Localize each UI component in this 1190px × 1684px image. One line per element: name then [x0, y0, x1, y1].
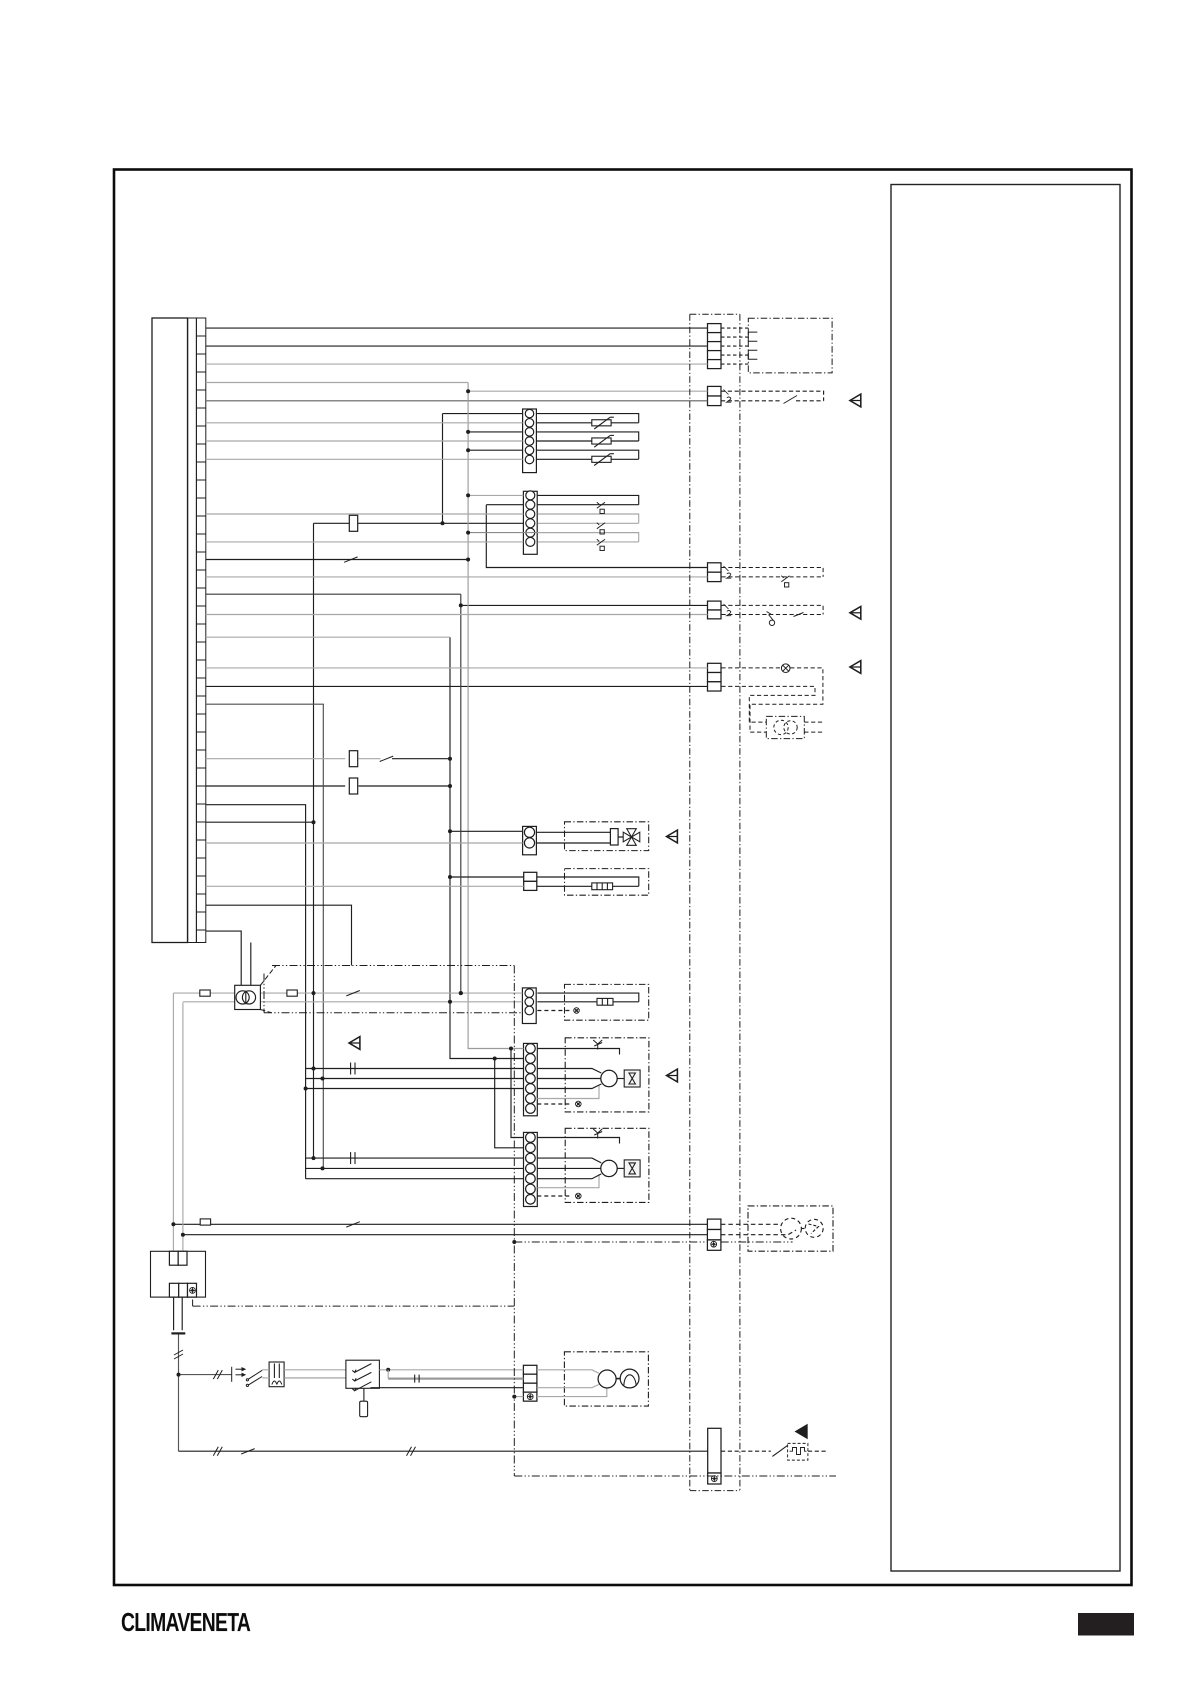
warning triangle [667, 1069, 678, 1082]
pump link [616, 1378, 620, 1380]
wire QS to FU [262, 1370, 269, 1378]
wire bend 351 [206, 905, 352, 965]
relay coil K [349, 778, 357, 794]
resistor R2 [597, 998, 613, 1005]
compressor enclosure [748, 1206, 833, 1251]
pressure switch SP3 [597, 539, 605, 550]
terminal strip X4 [708, 601, 722, 619]
contact KM1 [346, 1222, 360, 1227]
field boundary bottom [690, 1490, 740, 1492]
fan unit 2 paddle wire [537, 1138, 619, 1144]
connector J3 (valve) [523, 826, 537, 854]
Q1 output drops [174, 1297, 183, 1330]
wire heater return [206, 885, 524, 887]
wire bend to vert 322 [206, 704, 323, 1168]
PE terminal symbol [711, 1241, 717, 1247]
fan unit 1 motor wires [537, 1069, 601, 1089]
controller terminal cells [196, 318, 205, 943]
wire fan bus 1a [306, 1068, 524, 1070]
earth connection [576, 1193, 582, 1199]
wire fan jumper 2 [495, 1059, 524, 1148]
wire junctions [171, 389, 513, 1376]
wire relay row gray [206, 758, 381, 760]
fan unit 1 enclosure [565, 1038, 649, 1112]
wire DI switch row [206, 559, 468, 561]
wire bend 460 [206, 594, 461, 993]
pressure switch SP2 [597, 523, 605, 534]
wire fan jumper 1 [511, 1049, 524, 1138]
connector J2 (digital inputs) [523, 491, 537, 554]
wire DI3 long [206, 513, 524, 515]
wire KM out dark [371, 1387, 524, 1389]
control box right edge [513, 966, 515, 1477]
wire heater feed [450, 876, 524, 878]
fan unit 2 motor wires [537, 1158, 601, 1179]
fuse F5 [200, 1219, 210, 1225]
cable loop B3 [536, 450, 639, 459]
X3 dashed loop [722, 568, 824, 577]
X3 count mark [724, 566, 732, 578]
field boundary top [690, 313, 740, 315]
KM N drop [387, 1370, 389, 1379]
warning triangle [667, 830, 678, 843]
controller board U1 body [152, 318, 188, 943]
valve unit enclosure [565, 822, 649, 851]
connector J1 (NTC probes) [523, 409, 537, 473]
fan unit 2 fan box [624, 1160, 640, 1177]
wire valve feed [450, 830, 523, 832]
cable loop DI1 [538, 495, 639, 504]
X7 heater [788, 1443, 808, 1460]
cable mark L [213, 1370, 222, 1379]
pump unit enclosure [564, 1352, 648, 1406]
X7 dashed [721, 1450, 827, 1452]
Q1 top terminals [169, 1251, 187, 1265]
control box bottom run [514, 1475, 836, 1477]
wire 24V a [173, 992, 522, 994]
terminal block X7 [708, 1428, 721, 1473]
wire NTC3 return [206, 458, 523, 460]
field boundary right [739, 314, 741, 1490]
load earth jumper [537, 1010, 570, 1012]
terminal strip X6 (compressor) [707, 1219, 721, 1250]
wire pump line [179, 1450, 708, 1452]
NTC probe B1 [592, 417, 614, 429]
fan unit 1 fan box [624, 1070, 640, 1087]
PE terminal symbol [190, 1288, 196, 1294]
fan2 earth jumper [537, 1195, 572, 1197]
valve star [623, 829, 640, 846]
display pins [748, 332, 757, 359]
page number box [1078, 1613, 1134, 1636]
cable loop B2 [536, 432, 639, 441]
connector J6 (fan unit 1) [524, 1043, 538, 1115]
Q1 bottom terminals [169, 1283, 196, 1297]
wire NTC2 feed [468, 431, 522, 433]
fuse F4 [287, 990, 297, 996]
heater element R1 [592, 883, 613, 890]
compressor motor [781, 1218, 802, 1239]
PE tap dot [512, 1395, 516, 1399]
Climaveneta logo [120, 1608, 249, 1638]
terminal strip X2 (remote on-off) [708, 386, 722, 405]
compressor pump [805, 1219, 823, 1237]
wire DI6 feed [206, 541, 524, 543]
wire relay row 1 [206, 785, 450, 787]
PE terminal symbol [527, 1394, 533, 1400]
fan unit 2 enclosure [565, 1128, 649, 1202]
fan unit 1 motor M [601, 1070, 617, 1086]
wire to X2.2 [206, 400, 708, 402]
wire DI2 branch [486, 505, 707, 568]
disconnect QS1 [232, 1367, 262, 1387]
compressor PE run b [721, 1241, 793, 1243]
border frame [114, 170, 1132, 1586]
earth connection [576, 1101, 582, 1107]
pump P [620, 1369, 639, 1388]
PE terminal symbol [711, 1476, 717, 1482]
wire compressor L [173, 1223, 707, 1225]
wire X4 feed [461, 604, 708, 606]
wire 25 to X1.3 [206, 345, 708, 347]
contact supply [346, 991, 360, 996]
switch contact pump line [241, 1449, 255, 1454]
heater unit enclosure [565, 869, 649, 896]
cable loop DI3 [538, 533, 639, 542]
wire supply entry [179, 1333, 233, 1451]
contact K1 aux [344, 557, 358, 562]
wire KM out N [388, 1377, 523, 1379]
cable mark [174, 1350, 183, 1359]
wire relay row gray2 [392, 758, 450, 760]
transformer T1 [235, 985, 261, 1009]
wire left drop a [172, 993, 174, 1251]
wire fan bus 2c [306, 1178, 524, 1180]
fan unit 2 motor-fan link [617, 1167, 624, 1169]
cable loop B1 [536, 414, 639, 423]
terminal strip X1 (display) [708, 324, 722, 369]
terminal X8 earth cell [523, 1392, 537, 1401]
wire NTC1 return [206, 422, 523, 424]
capacitor run [415, 1375, 419, 1383]
vent unit box [766, 716, 804, 738]
wire 24 to X1.1 [206, 327, 708, 329]
contact aux 2 [380, 756, 394, 761]
KM out junction [386, 1368, 390, 1372]
load cable [537, 993, 638, 1002]
power entry box Q1 [151, 1251, 206, 1297]
contact K2 [351, 1063, 355, 1075]
wire DI fuse feed [314, 522, 524, 524]
fan unit 2 motor M [601, 1160, 617, 1176]
warning triangle [850, 661, 861, 674]
NTC probe B2 [592, 435, 614, 447]
load unit enclosure [565, 984, 649, 1020]
control box boundary [264, 966, 522, 1013]
X7 switch lever [772, 1446, 787, 1457]
cable mark N2 [407, 1447, 416, 1456]
fuse F2 [349, 751, 357, 767]
contactor coil KM1 [360, 1388, 368, 1416]
field boundary left [689, 314, 691, 1490]
wire fan bus 2a [306, 1157, 524, 1159]
wire bend to vert 313 [206, 523, 314, 1158]
X2 leader [724, 390, 729, 395]
X4 dashed loop [722, 605, 824, 614]
pressure switch SP1 [597, 502, 605, 513]
terminal strip X8 (pump supply) [523, 1365, 537, 1392]
wire remote enable b [468, 390, 707, 392]
wire transformer primary a [206, 931, 241, 985]
wire fan bus 1c [306, 1088, 524, 1090]
wire vert 468 common [468, 383, 523, 1049]
wire fan2 motor gray [537, 1174, 599, 1187]
wire X5 gray [206, 667, 708, 669]
terminal J4 (heater) [524, 872, 537, 890]
fan unit 1 motor-fan link [617, 1078, 624, 1080]
power PE run [193, 1300, 515, 1307]
terminal strip X5 (alarm lamp) [708, 663, 722, 691]
wire remote enable [206, 382, 468, 384]
remote pressure switch [781, 576, 789, 587]
wire transformer primary b [250, 943, 252, 986]
warning triangle [796, 1425, 807, 1438]
connector J5 (24V supply) [522, 988, 536, 1024]
connector J7 (fan unit 2) [524, 1132, 538, 1206]
contact K3 [351, 1152, 355, 1164]
pump motor M [598, 1370, 616, 1388]
wire fan1 motor gray [537, 1086, 599, 1099]
alarm lamp HL1 [781, 664, 790, 673]
valve body [610, 829, 618, 845]
wire left drop b [182, 1003, 184, 1251]
X5 lamp loop [721, 668, 823, 732]
control box chamfer a [260, 966, 276, 986]
wire KM out gray [379, 1369, 523, 1371]
pump PE gray [537, 1388, 607, 1397]
remote onoff dashed [721, 391, 824, 401]
pump motor wires [537, 1370, 599, 1388]
fuse F3 [200, 990, 210, 996]
wire X3 gray [206, 576, 708, 578]
cable loop DI2 [538, 514, 639, 523]
warning triangle [349, 1037, 360, 1050]
terminal strip X3 [708, 563, 722, 582]
X4 glyph flow switch [767, 612, 804, 626]
wire NTC common bus [443, 414, 523, 524]
vent motor dashed [774, 720, 797, 734]
breaker FU1 [269, 1362, 284, 1387]
wire FU to KM [284, 1369, 346, 1371]
legend panel [891, 185, 1120, 1572]
valve wires [536, 832, 623, 843]
fuse F1 [349, 515, 357, 531]
wire valve return [206, 842, 523, 844]
wire bend to vert 305 [206, 805, 306, 1179]
display unit box [748, 318, 832, 373]
compressor PE run [514, 1241, 707, 1243]
display wires dashed [721, 328, 748, 364]
X5 vent loop [721, 686, 823, 722]
remote switch lever [784, 396, 798, 404]
wire compressor N [183, 1234, 708, 1236]
cable mark N [213, 1447, 222, 1456]
NTC probe B3 [592, 454, 614, 466]
wire PE tap [514, 1396, 524, 1398]
control box chamfer b [260, 1010, 271, 1013]
fan unit 1 flow switch [593, 1040, 602, 1050]
wire vert 450 [450, 637, 524, 1058]
controller edge strip [188, 318, 197, 943]
fan unit 2 flow switch [593, 1129, 602, 1139]
wire X4 gray [206, 614, 708, 616]
cable junction bar [171, 1332, 185, 1334]
wire fan bus 1b [306, 1078, 524, 1080]
warning triangle [850, 394, 861, 407]
fan1 earth jumper [537, 1103, 572, 1105]
wire to X5.3 [206, 685, 708, 687]
wire X1 cell feeds [206, 363, 708, 365]
contactor KM1 [346, 1360, 380, 1391]
warning triangle [850, 606, 861, 619]
wire count 2 mark [727, 397, 732, 402]
compressor wires dashed [721, 1224, 796, 1234]
earth connection [574, 1008, 580, 1014]
wire FU to KM b [284, 1377, 346, 1379]
wire NTC2 return [206, 440, 523, 442]
X4 count mark [724, 604, 732, 616]
wire NTC3 feed [468, 449, 522, 451]
wire bend 637 [206, 636, 450, 638]
wire DI common [468, 532, 639, 534]
wire fan bus 2b [306, 1167, 524, 1169]
fan unit 1 paddle wire [537, 1049, 619, 1055]
terminal block X7 earth cell [708, 1473, 721, 1484]
wire DI1 feed [468, 494, 523, 496]
heater cable [537, 877, 639, 886]
compressor link [801, 1228, 805, 1230]
wire 24V b [183, 1001, 523, 1003]
PE junction [512, 1240, 516, 1244]
